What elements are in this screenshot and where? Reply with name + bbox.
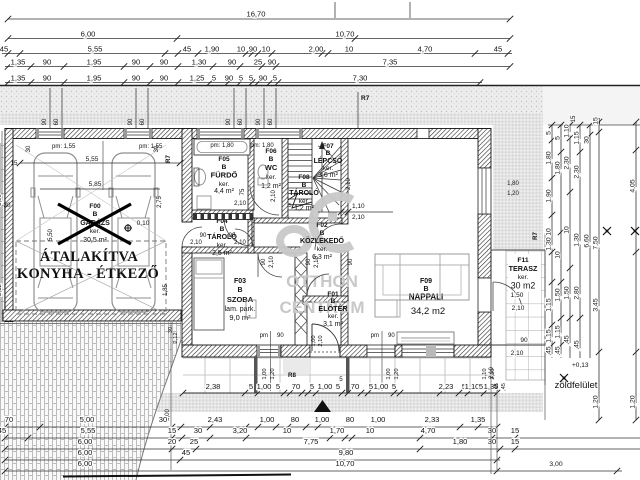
- svg-text:3,20: 3,20: [233, 426, 248, 435]
- svg-text:1,80: 1,80: [453, 437, 468, 446]
- svg-text:4,05: 4,05: [630, 179, 637, 192]
- svg-text:ker.: ker.: [323, 165, 334, 172]
- svg-text:ker.: ker.: [90, 228, 101, 235]
- svg-text:1,95: 1,95: [87, 58, 102, 67]
- svg-text:5: 5: [239, 74, 243, 83]
- svg-text:90: 90: [128, 118, 134, 125]
- svg-text:45: 45: [0, 45, 8, 54]
- svg-text:2,43: 2,43: [208, 415, 223, 424]
- svg-text:ker.: ker.: [299, 198, 310, 205]
- svg-text:pm: 1,55: pm: 1,55: [52, 144, 76, 150]
- svg-text:R7: R7: [166, 155, 172, 163]
- svg-text:60: 60: [140, 118, 146, 125]
- svg-text:5: 5: [276, 382, 280, 391]
- svg-text:F02: F02: [316, 222, 328, 229]
- svg-text:2,10: 2,10: [489, 367, 495, 379]
- svg-text:15: 15: [511, 437, 519, 446]
- svg-text:SZOBA: SZOBA: [227, 295, 254, 304]
- svg-text:15: 15: [511, 426, 519, 435]
- svg-text:5: 5: [212, 74, 216, 83]
- svg-text:2,12: 2,12: [173, 332, 179, 343]
- svg-text:F09: F09: [420, 278, 432, 285]
- svg-text:90: 90: [520, 337, 528, 344]
- svg-text:lam. park.: lam. park.: [225, 306, 256, 313]
- svg-text:TERASZ: TERASZ: [509, 264, 538, 273]
- svg-text:90: 90: [348, 258, 354, 265]
- svg-text:60: 60: [268, 118, 274, 125]
- svg-text:1,30: 1,30: [192, 58, 207, 67]
- svg-text:10: 10: [262, 45, 270, 54]
- svg-text:30,5 m²: 30,5 m²: [83, 237, 107, 244]
- svg-text:2,10: 2,10: [234, 240, 246, 246]
- svg-text:90: 90: [306, 258, 312, 265]
- svg-text:2,10: 2,10: [346, 178, 352, 190]
- svg-text:90: 90: [228, 58, 236, 67]
- svg-text:7,50: 7,50: [593, 236, 600, 249]
- svg-text:3,1 m²: 3,1 m²: [323, 321, 344, 328]
- svg-text:2,80: 2,80: [574, 286, 581, 299]
- svg-text:2,10: 2,10: [318, 335, 324, 346]
- svg-text:45: 45: [183, 45, 191, 54]
- svg-text:30: 30: [4, 202, 11, 209]
- svg-text:7,35: 7,35: [383, 58, 398, 67]
- svg-text:1,80: 1,80: [507, 181, 519, 187]
- svg-text:2,10: 2,10: [269, 256, 275, 268]
- svg-text:90: 90: [225, 74, 233, 83]
- svg-text:90: 90: [261, 258, 267, 265]
- svg-text:5,55: 5,55: [86, 156, 99, 163]
- svg-text:5,00: 5,00: [80, 415, 95, 424]
- svg-text:10: 10: [564, 226, 571, 234]
- svg-text:1,10: 1,10: [482, 368, 488, 379]
- svg-text:90: 90: [388, 333, 395, 339]
- svg-text:6,00: 6,00: [78, 437, 93, 446]
- svg-text:80: 80: [291, 415, 299, 424]
- svg-text:34,2 m2: 34,2 m2: [411, 306, 445, 317]
- svg-text:B: B: [220, 226, 225, 233]
- svg-text:1,10: 1,10: [564, 124, 571, 137]
- svg-text:1,80: 1,80: [555, 161, 562, 174]
- svg-text:F03: F03: [234, 278, 246, 285]
- svg-text:1,20: 1,20: [630, 395, 637, 408]
- svg-text:F07: F07: [322, 143, 334, 150]
- svg-text:45: 45: [0, 426, 6, 435]
- svg-text:5: 5: [546, 131, 553, 135]
- svg-text:2,75: 2,75: [157, 196, 163, 208]
- svg-text:30: 30: [488, 437, 496, 446]
- svg-text:5: 5: [273, 74, 277, 83]
- svg-text:1,10: 1,10: [465, 382, 480, 391]
- svg-text:FÜRDŐ: FÜRDŐ: [211, 171, 238, 180]
- svg-text:2,23: 2,23: [439, 382, 454, 391]
- svg-text:5: 5: [479, 382, 483, 391]
- svg-text:10,70: 10,70: [335, 459, 354, 468]
- svg-text:ker.: ker.: [317, 246, 328, 253]
- svg-text:10: 10: [555, 251, 562, 259]
- svg-text:1,10: 1,10: [352, 203, 365, 210]
- svg-text:3,00: 3,00: [549, 461, 562, 468]
- svg-text:1,00: 1,00: [257, 382, 272, 391]
- svg-text:TÁROLÓ: TÁROLÓ: [289, 188, 319, 197]
- svg-text:pm: pm: [260, 333, 268, 339]
- svg-text:90: 90: [249, 45, 257, 54]
- svg-text:1,50: 1,50: [564, 286, 571, 299]
- svg-text:25: 25: [190, 437, 198, 446]
- svg-text:1,90: 1,90: [205, 45, 220, 54]
- svg-text:90: 90: [268, 58, 276, 67]
- svg-text:90: 90: [132, 74, 140, 83]
- svg-text:5,85: 5,85: [89, 181, 102, 188]
- svg-text:F08: F08: [298, 174, 310, 181]
- svg-text:1,20: 1,20: [507, 191, 519, 197]
- svg-text:R8: R8: [288, 372, 296, 379]
- svg-text:7,30: 7,30: [353, 74, 368, 83]
- svg-text:5: 5: [249, 382, 253, 391]
- svg-text:10,70: 10,70: [335, 30, 354, 39]
- svg-text:F06: F06: [265, 148, 277, 155]
- svg-text:KÖZLEKEDŐ: KÖZLEKEDŐ: [300, 236, 345, 245]
- svg-text:5,90: 5,90: [0, 194, 3, 206]
- svg-text:5,55: 5,55: [81, 426, 96, 435]
- svg-text:+0,13: +0,13: [572, 362, 589, 369]
- svg-text:90: 90: [132, 58, 140, 67]
- svg-text:1,2 m²: 1,2 m²: [261, 183, 282, 190]
- svg-text:B: B: [237, 287, 242, 294]
- svg-text:90: 90: [259, 74, 267, 83]
- svg-text:1,00: 1,00: [374, 382, 389, 391]
- svg-text:,45: ,45: [501, 383, 507, 391]
- svg-text:75: 75: [240, 188, 246, 195]
- svg-text:1,00: 1,00: [260, 415, 275, 424]
- svg-text:90: 90: [229, 233, 236, 239]
- svg-text:16,70: 16,70: [246, 10, 265, 19]
- svg-text:1,20: 1,20: [270, 368, 276, 379]
- svg-text:R7: R7: [361, 95, 370, 102]
- svg-text:6,60: 6,60: [584, 234, 591, 247]
- svg-text:1,2 m²: 1,2 m²: [294, 205, 315, 212]
- svg-text:80: 80: [346, 415, 354, 424]
- svg-text:F00: F00: [89, 203, 101, 210]
- svg-text:9,0 m²: 9,0 m²: [229, 313, 251, 322]
- svg-text:2,10: 2,10: [352, 214, 365, 221]
- svg-text:45: 45: [494, 45, 502, 54]
- svg-text:6,00: 6,00: [78, 459, 93, 468]
- svg-text:90: 90: [43, 58, 51, 67]
- svg-text:ÁTALAKÍTVA: ÁTALAKÍTVA: [40, 248, 139, 265]
- svg-text:,45: ,45: [574, 340, 581, 350]
- svg-text:B: B: [269, 156, 274, 163]
- svg-text:2,30: 2,30: [574, 165, 581, 178]
- svg-text:2,10: 2,10: [190, 240, 202, 246]
- svg-text:B: B: [302, 182, 307, 189]
- svg-text:70: 70: [5, 415, 13, 424]
- svg-text:15: 15: [571, 115, 577, 122]
- svg-text:1,35: 1,35: [11, 74, 26, 83]
- svg-text:1,35: 1,35: [471, 415, 486, 424]
- svg-text:30: 30: [154, 145, 160, 152]
- svg-text:1,85: 1,85: [163, 284, 169, 296]
- svg-text:7,75: 7,75: [304, 437, 319, 446]
- svg-text:90: 90: [256, 118, 262, 125]
- svg-text:1,20: 1,20: [394, 368, 400, 379]
- svg-text:1,15: 1,15: [574, 131, 581, 144]
- svg-text:,45: ,45: [564, 335, 571, 345]
- svg-text:1,35: 1,35: [11, 58, 26, 67]
- svg-text:15: 15: [11, 160, 18, 167]
- svg-text:ELŐTÉR: ELŐTÉR: [318, 304, 348, 313]
- svg-text:2,10: 2,10: [512, 305, 525, 312]
- svg-text:90: 90: [160, 74, 168, 83]
- svg-text:30: 30: [194, 426, 202, 435]
- svg-text:2,10: 2,10: [271, 190, 277, 202]
- svg-text:1,95: 1,95: [87, 74, 102, 83]
- svg-text:1,80: 1,80: [546, 151, 553, 164]
- svg-text:ker.: ker.: [328, 313, 339, 320]
- svg-text:,45: ,45: [546, 346, 553, 356]
- svg-text:2,12: 2,12: [0, 284, 3, 296]
- svg-text:1,30: 1,30: [546, 237, 553, 250]
- svg-text:5: 5: [310, 382, 314, 391]
- svg-text:1,25: 1,25: [190, 74, 205, 83]
- svg-text:30: 30: [159, 415, 167, 424]
- svg-text:,45: ,45: [494, 383, 500, 391]
- svg-text:4,4 m²: 4,4 m²: [214, 188, 235, 195]
- svg-text:5: 5: [369, 382, 373, 391]
- svg-text:1,50: 1,50: [511, 292, 524, 299]
- svg-text:2,30: 2,30: [564, 156, 571, 169]
- svg-text:30: 30: [488, 426, 496, 435]
- svg-text:90: 90: [226, 118, 232, 125]
- svg-text:90: 90: [200, 233, 207, 239]
- svg-text:pm: 1,80: pm: 1,80: [210, 143, 234, 149]
- svg-text:2,10: 2,10: [314, 256, 320, 268]
- svg-text:90: 90: [43, 74, 51, 83]
- svg-text:B: B: [93, 211, 98, 218]
- svg-text:6,00: 6,00: [81, 30, 96, 39]
- svg-text:15: 15: [593, 117, 600, 125]
- svg-text:5: 5: [555, 136, 562, 140]
- svg-text:pm: pm: [371, 333, 379, 339]
- svg-text:1,15: 1,15: [546, 329, 553, 342]
- svg-text:90: 90: [160, 58, 168, 67]
- svg-text:2,38: 2,38: [206, 382, 221, 391]
- svg-text:,45: ,45: [555, 346, 562, 356]
- svg-text:5: 5: [249, 74, 253, 83]
- svg-text:9,80: 9,80: [339, 448, 354, 457]
- svg-text:45: 45: [182, 448, 190, 457]
- svg-text:5,55: 5,55: [88, 45, 103, 54]
- svg-text:F01: F01: [327, 291, 339, 298]
- svg-text:10: 10: [345, 45, 353, 54]
- svg-text:5: 5: [288, 203, 291, 209]
- svg-text:90: 90: [42, 118, 48, 125]
- svg-text:30 m2: 30 m2: [511, 281, 536, 291]
- svg-text:2,5 m²: 2,5 m²: [212, 250, 233, 257]
- svg-text:R7: R7: [533, 232, 539, 240]
- svg-text:15: 15: [168, 426, 176, 435]
- svg-text:F11: F11: [517, 257, 529, 264]
- svg-text:10: 10: [546, 228, 553, 236]
- svg-text:30: 30: [584, 136, 591, 144]
- svg-text:4,70: 4,70: [421, 426, 436, 435]
- svg-text:1,00: 1,00: [371, 415, 386, 424]
- svg-text:2,00: 2,00: [309, 45, 324, 54]
- svg-text:1,00: 1,00: [262, 368, 268, 379]
- svg-text:90: 90: [277, 333, 284, 339]
- svg-text:4,70: 4,70: [418, 45, 433, 54]
- svg-text:2,33: 2,33: [425, 415, 440, 424]
- svg-text:1,20: 1,20: [593, 395, 600, 408]
- svg-text:1,00: 1,00: [318, 382, 333, 391]
- svg-text:1,00: 1,00: [386, 368, 392, 379]
- svg-text:1,70: 1,70: [330, 426, 345, 435]
- svg-text:1,50: 1,50: [555, 288, 562, 301]
- svg-text:KONYHA - ÉTKEZŐ: KONYHA - ÉTKEZŐ: [17, 265, 159, 282]
- svg-text:F05: F05: [218, 156, 230, 163]
- svg-text:1,15: 1,15: [546, 298, 553, 311]
- svg-text:70: 70: [292, 382, 300, 391]
- svg-text:10: 10: [283, 426, 291, 435]
- svg-text:20: 20: [168, 437, 176, 446]
- svg-text:3,45: 3,45: [593, 298, 600, 311]
- svg-text:5,50: 5,50: [48, 229, 54, 241]
- svg-text:10: 10: [366, 426, 374, 435]
- svg-text:5: 5: [336, 382, 340, 391]
- svg-text:1,30: 1,30: [574, 233, 581, 246]
- svg-text:ker.: ker.: [219, 181, 230, 188]
- svg-text:25: 25: [254, 58, 262, 67]
- svg-text:pm: 1,80: pm: 1,80: [250, 143, 274, 149]
- svg-text:2,10: 2,10: [511, 350, 524, 357]
- svg-text:0,10: 0,10: [137, 220, 150, 227]
- svg-text:zöldfelület: zöldfelület: [555, 380, 598, 391]
- svg-text:1,15: 1,15: [555, 325, 562, 338]
- svg-text:2,10: 2,10: [234, 200, 247, 207]
- svg-text:6,00: 6,00: [78, 448, 93, 457]
- svg-text:5: 5: [392, 382, 396, 391]
- svg-text:3,6 m²: 3,6 m²: [318, 172, 339, 179]
- svg-text:60: 60: [238, 118, 244, 125]
- svg-text:1,00: 1,00: [315, 415, 330, 424]
- svg-text:ker.: ker.: [217, 242, 228, 249]
- svg-text:LÉPCSŐ: LÉPCSŐ: [314, 156, 343, 165]
- svg-text:1,00: 1,00: [311, 335, 317, 346]
- svg-text:30: 30: [26, 145, 32, 152]
- svg-text:10: 10: [237, 45, 245, 54]
- svg-text:70: 70: [351, 382, 359, 391]
- svg-text:1,90: 1,90: [546, 189, 553, 202]
- svg-text:B: B: [326, 150, 331, 157]
- svg-text:60: 60: [54, 118, 60, 125]
